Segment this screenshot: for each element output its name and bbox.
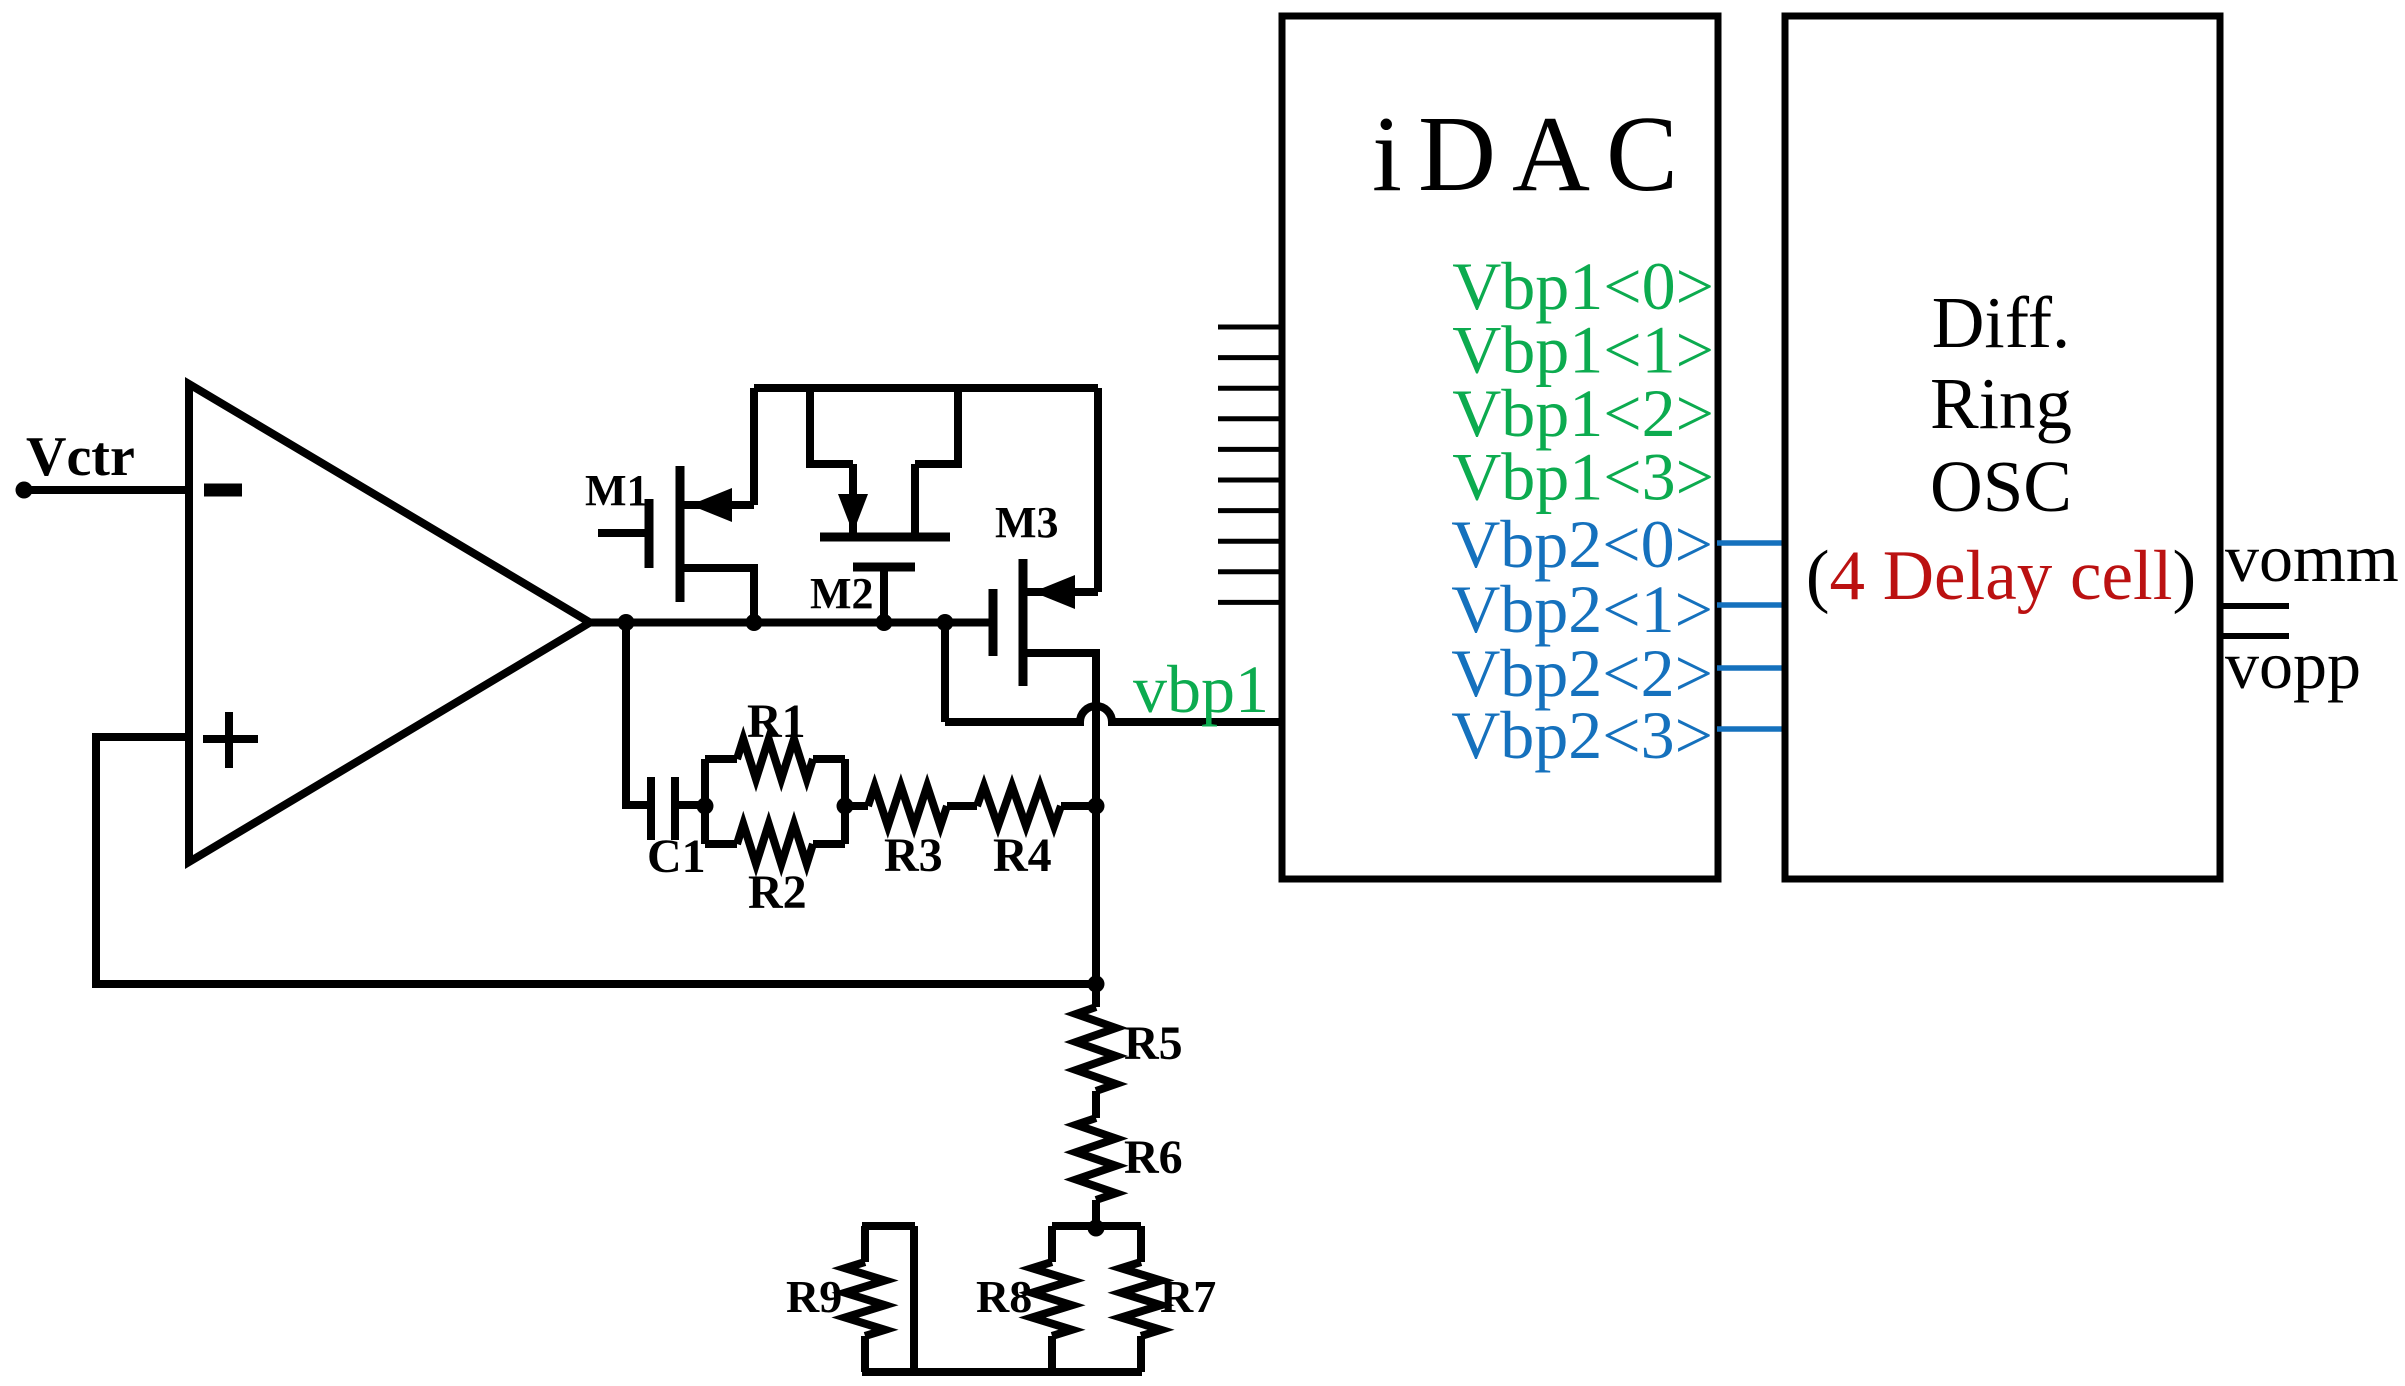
wire R1R2 right vertical [841, 759, 849, 844]
svg-text:R5: R5 [1124, 1017, 1183, 1070]
wire node to R3 [845, 802, 868, 810]
svg-text:R8: R8 [976, 1271, 1032, 1322]
M3 source arrow [1033, 575, 1075, 609]
wire R1R2 left vertical [701, 759, 709, 844]
pin tick 6 [1218, 478, 1282, 483]
resistor R7 [1121, 1226, 1161, 1372]
svg-text:M3: M3 [995, 498, 1059, 547]
M2 gate plate [853, 563, 915, 572]
M1 source lead [680, 501, 754, 509]
svg-text:C1: C1 [647, 830, 706, 883]
wire Vbp2<2> link (blue) [1717, 665, 1784, 671]
svg-text:(4 Delay cell): (4 Delay cell) [1806, 537, 2196, 615]
wire R1 top left stub [705, 755, 737, 763]
node bus junction B (M1 drain) [746, 614, 763, 631]
pin tick 5 [1218, 447, 1282, 452]
wire R6 to bottom node [1092, 1200, 1100, 1228]
transistor M1 [585, 388, 754, 623]
wire VDD top rail [754, 384, 1098, 392]
M1 source riser [750, 388, 758, 505]
M3 gate lead [945, 619, 993, 627]
wire R9 bypass vertical [910, 1226, 918, 1372]
svg-text:vomm: vomm [2225, 520, 2399, 596]
wire drain node down [1092, 806, 1100, 1007]
pin tick 1 [1218, 325, 1282, 330]
svg-text:R1: R1 [747, 695, 806, 748]
node bottom junction [1088, 1220, 1105, 1237]
M2 arrow (down) [838, 494, 868, 533]
svg-text:Vbp1<3>: Vbp1<3> [1452, 439, 1714, 515]
M2 channel plate [820, 533, 950, 542]
M2 right lead [911, 464, 919, 537]
svg-text:M2: M2 [810, 569, 874, 618]
svg-text:Diff.: Diff. [1932, 282, 2071, 363]
wire R2 bottom left stub [705, 840, 737, 848]
svg-text:OSC: OSC [1930, 446, 2072, 527]
M2 left lead [849, 464, 857, 533]
svg-text:R7: R7 [1160, 1271, 1216, 1322]
svg-text:M1: M1 [585, 466, 649, 515]
wire R7R8 top rail [1052, 1222, 1141, 1230]
M3 source lead [1023, 588, 1098, 596]
M3 channel bar [1019, 559, 1028, 686]
pin tick 7 [1218, 508, 1282, 513]
M1 channel bar [676, 466, 685, 602]
wire R3 to R4 [947, 802, 977, 810]
svg-text:R2: R2 [748, 866, 807, 919]
M2 right riser [915, 388, 958, 464]
capacitor C1 [651, 777, 675, 840]
wire R4 to drain node [1061, 802, 1096, 810]
svg-text:R6: R6 [1124, 1131, 1183, 1184]
node R1R2 right [837, 798, 854, 815]
node feedback junction [1088, 976, 1105, 993]
wire feedback from plus input [96, 737, 1096, 984]
svg-text:R3: R3 [884, 829, 943, 882]
op-amp U1 triangle [189, 384, 590, 862]
wire vbp1 to iDAC with hop [945, 706, 1283, 722]
wire vomm output tick [2220, 603, 2289, 609]
svg-text:R4: R4 [993, 829, 1052, 882]
op-amp plus input sign [203, 712, 258, 768]
M3 gate bar [989, 589, 998, 656]
svg-text:vbp1: vbp1 [1133, 651, 1269, 727]
pin tick 3 [1218, 386, 1282, 391]
wire Vbp2<1> link (blue) [1717, 602, 1784, 608]
wire bottom rail [862, 1368, 1142, 1376]
resistor R8 [1032, 1226, 1072, 1372]
svg-text:Ring: Ring [1930, 363, 2072, 444]
M1 drain lead [680, 568, 754, 623]
pin tick 4 [1218, 416, 1282, 421]
wire bus to C1 [626, 623, 651, 806]
wire vbp1 gate drop [941, 623, 949, 723]
svg-text:vopp: vopp [2225, 627, 2361, 703]
pin tick 8 [1218, 539, 1282, 544]
svg-text:Vbp2<3>: Vbp2<3> [1451, 697, 1713, 773]
wire R2 bottom right stub [813, 840, 845, 848]
pin tick 2 [1218, 355, 1282, 360]
node bus junction C (M2 gate) [876, 614, 893, 631]
M1 gate bar [645, 499, 654, 568]
M3 source riser [1094, 388, 1102, 592]
wire R5-R6 [1092, 1091, 1100, 1118]
svg-text:Vctr: Vctr [26, 426, 135, 488]
wire Vbp2<0> link (blue) [1717, 540, 1784, 546]
M2 left riser [810, 388, 853, 464]
wire Vctr input [24, 486, 189, 494]
block iDAC box [1282, 16, 1718, 879]
op-amp minus input sign [204, 484, 242, 497]
block Diff Ring OSC box [1785, 16, 2220, 879]
resistor R6 [1076, 1118, 1116, 1200]
svg-text:R9: R9 [786, 1271, 842, 1322]
wire C1 to R1R2 node [675, 801, 705, 809]
M2 gate lead [880, 567, 888, 623]
M1 gate lead [598, 529, 649, 537]
svg-text:iDAC: iDAC [1372, 95, 1694, 214]
node R1R2 left [697, 798, 714, 815]
wire R9 top rail [862, 1222, 915, 1230]
resistor R9 [845, 1226, 885, 1372]
M1 source arrow [690, 488, 732, 522]
M3 drain lead [1023, 653, 1096, 806]
transistor M3 [945, 388, 1098, 806]
resistor R2 [737, 824, 813, 864]
resistor R5 [1076, 1007, 1116, 1091]
pin tick 9 [1218, 569, 1282, 574]
node Vctr terminal dot [16, 482, 33, 499]
resistor R1 [737, 739, 813, 779]
transistor M2 (MOS cap) [810, 388, 958, 623]
pin tick 10 [1218, 600, 1282, 605]
wire op-amp output bus [590, 619, 945, 627]
wire vopp output tick [2220, 633, 2289, 639]
wire R1 top right stub [813, 755, 845, 763]
resistor R3 [868, 786, 947, 826]
node bus junction A [618, 614, 635, 631]
wire Vbp2<3> link (blue) [1717, 726, 1784, 732]
node bus junction D (M3 gate) [937, 614, 954, 631]
node R4 right junction [1088, 798, 1105, 815]
iDAC input bus ticks [1218, 327, 1282, 602]
resistor R4 [977, 786, 1061, 826]
